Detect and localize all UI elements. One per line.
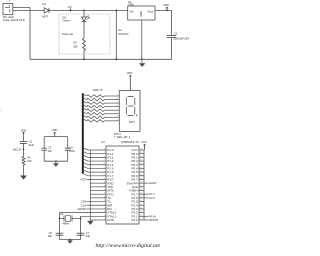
svg-text:C1: C1	[174, 32, 178, 36]
svg-text:C5: C5	[29, 139, 33, 143]
svg-text:P1.7: P1.7	[149, 192, 155, 196]
svg-text:P2.6: P2.6	[149, 196, 155, 200]
svg-text:VDD: VDD	[127, 71, 133, 75]
svg-text:X1: X1	[60, 212, 64, 216]
svg-text:http://www.micro-digital.net: http://www.micro-digital.net	[96, 243, 161, 249]
svg-text:12V: 12V	[67, 5, 72, 9]
svg-text:4007: 4007	[42, 15, 48, 19]
svg-text:Power Jack(3.5/1.3): Power Jack(3.5/1.3)	[3, 18, 25, 22]
svg-text:7_SEG_DP_1: 7_SEG_DP_1	[114, 135, 131, 139]
svg-text:Optional: Optional	[62, 32, 74, 36]
svg-text:VCC: VCC	[141, 140, 147, 144]
svg-text:33p: 33p	[86, 234, 91, 238]
svg-text:Vin: Vin	[130, 10, 135, 14]
svg-text:RST: RST	[81, 177, 87, 181]
svg-text:GND: GND	[139, 11, 143, 17]
svg-text:P2.0: P2.0	[132, 218, 139, 222]
svg-text:CLK: CLK	[81, 203, 86, 207]
svg-text:C3: C3	[48, 145, 52, 149]
svg-text:Vout: Vout	[147, 10, 153, 14]
svg-text:DC Jack: DC Jack	[3, 15, 14, 19]
svg-text:10uF: 10uF	[28, 143, 34, 147]
svg-text:MCLR: MCLR	[13, 148, 21, 152]
svg-text:CS0: CS0	[81, 200, 87, 204]
svg-text:100n: 100n	[69, 149, 75, 153]
svg-text:U2: U2	[101, 140, 105, 144]
svg-text:VDD: VDD	[21, 128, 27, 132]
svg-text:GND: GND	[107, 218, 115, 222]
svg-text:CN1: CN1	[7, 0, 12, 2]
svg-text:BZZTR: BZZTR	[149, 218, 158, 222]
svg-text:C2: C2	[118, 28, 122, 32]
svg-text:C4: C4	[69, 145, 73, 149]
svg-text:10n: 10n	[48, 149, 53, 153]
svg-text:330: 330	[73, 44, 78, 48]
svg-text:10K: 10K	[27, 159, 32, 163]
svg-text:VDD: VDD	[163, 3, 169, 7]
svg-text:DPY: DPY	[129, 120, 135, 124]
svg-text:RLAY: RLAY	[149, 214, 156, 218]
svg-text:Green: Green	[63, 19, 71, 23]
svg-text:33p: 33p	[48, 234, 53, 238]
svg-text:R2: R2	[74, 41, 78, 45]
svg-text:VDD: VDD	[52, 128, 58, 132]
svg-text:DATA0: DATA0	[78, 207, 87, 211]
svg-text:4MHz: 4MHz	[62, 222, 69, 226]
svg-text:330R x 8: 330R x 8	[93, 88, 103, 92]
svg-text:1000uF/25V: 1000uF/25V	[118, 33, 129, 36]
svg-text:D2: D2	[43, 2, 47, 6]
svg-text:EAVP: EAVP	[149, 181, 156, 185]
svg-text:7805: 7805	[128, 3, 134, 7]
svg-text:2200uF/16V: 2200uF/16V	[173, 38, 189, 41]
svg-text:AT89x51-IC: AT89x51-IC	[121, 140, 139, 144]
